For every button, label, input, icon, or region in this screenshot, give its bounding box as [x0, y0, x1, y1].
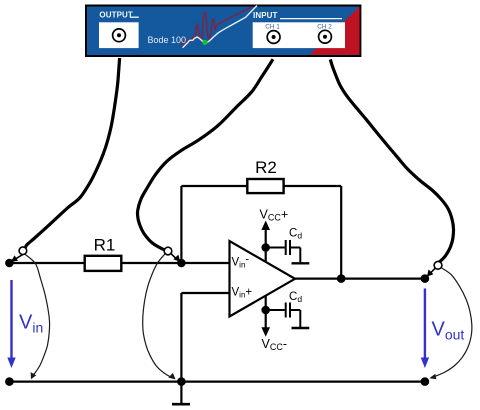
- logo waveform white trace: [183, 6, 257, 48]
- Vcc+ supply arrow: [265, 228, 267, 262]
- wire: non-inverting vertical to ground rail: [180, 293, 182, 382]
- wire: feedback right vertical: [340, 186, 342, 279]
- wire: CH1 coax cable: [137, 59, 273, 250]
- logo waveform red trace: [181, 7, 252, 47]
- capacitor Cd (bottom): [266, 309, 285, 311]
- OUTPUT connector well: [99, 22, 139, 48]
- wire: input rail (node A to op-amp inverting input): [9, 262, 229, 264]
- resistor R2: [247, 179, 283, 193]
- svg-text:OUTPUT: OUTPUT: [99, 11, 132, 20]
- node: feedback/output junction: [337, 274, 346, 283]
- svg-text:INPUT: INPUT: [253, 11, 278, 20]
- INPUT connector well: [253, 22, 345, 48]
- ground: bottom Cd bar: [292, 327, 310, 329]
- capacitor Cd (top): [266, 247, 285, 249]
- ground: top Cd bar: [292, 262, 310, 264]
- svg-text:VCC+: VCC+: [260, 208, 289, 223]
- ground: stub below rail: [180, 382, 182, 404]
- Bode 100 instrument box: [86, 6, 360, 57]
- probe arrow (CH2 probe tip to output node): [429, 268, 435, 274]
- probe arrow (CH1 probe tip to node): [171, 253, 178, 259]
- CH1 BNC connector: [267, 31, 280, 44]
- wire: feedback top horizontal through R2: [181, 185, 341, 187]
- wire: non-inverting input horizontal: [181, 292, 229, 294]
- node: output node: [421, 274, 430, 283]
- Vin annotation arrow (blue): [10, 280, 12, 360]
- probe tip circle (CH1): [164, 247, 172, 255]
- red corner triangle of instrument: [310, 7, 360, 55]
- wire: CH2 coax cable: [330, 59, 453, 262]
- node: inverting input junction: [177, 259, 186, 268]
- svg-text:R1: R1: [94, 236, 116, 255]
- node: Vcc- / Cd junction: [261, 306, 270, 315]
- svg-text:Cd: Cd: [289, 228, 302, 241]
- op-amp U1 triangle: [230, 241, 296, 317]
- probe ground lead arc (right): [143, 254, 174, 379]
- wire: OUTPUT coax cable: [25, 58, 120, 248]
- resistor R1: [85, 256, 122, 271]
- svg-text:Vin: Vin: [19, 311, 43, 335]
- svg-text:Vout: Vout: [432, 318, 465, 342]
- svg-text:Bode 100: Bode 100: [148, 35, 187, 45]
- svg-text:CH 1: CH 1: [265, 24, 280, 31]
- probe tip circle (CH2): [434, 261, 442, 269]
- logo green dot: [202, 40, 207, 45]
- node: left input node: [5, 259, 14, 268]
- probe tip circle (left): [19, 247, 27, 255]
- Vout annotation arrow (blue): [424, 289, 426, 360]
- probe ground lead arc (left): [25, 254, 50, 377]
- node: Vcc+ / Cd junction: [261, 243, 270, 252]
- Vcc- supply arrow: [265, 296, 267, 329]
- wire: output rail: [294, 278, 425, 280]
- svg-text:VCC-: VCC-: [262, 337, 288, 352]
- svg-text:Cd: Cd: [289, 291, 302, 304]
- CH2 BNC connector: [319, 30, 332, 43]
- svg-text:R2: R2: [255, 158, 277, 177]
- wire: bottom ground rail: [9, 381, 425, 383]
- ground: bar: [172, 403, 190, 406]
- node: ground rail middle: [177, 377, 186, 386]
- node: ground rail right: [421, 377, 430, 386]
- node: ground rail left: [5, 377, 14, 386]
- probe ground lead arc (output): [431, 268, 472, 378]
- svg-text:CH 2: CH 2: [317, 24, 332, 31]
- wire: feedback left vertical: [180, 186, 182, 263]
- OUTPUT BNC connector: [113, 29, 126, 42]
- probe arrow (left, output probe tip to node): [14, 254, 25, 260]
